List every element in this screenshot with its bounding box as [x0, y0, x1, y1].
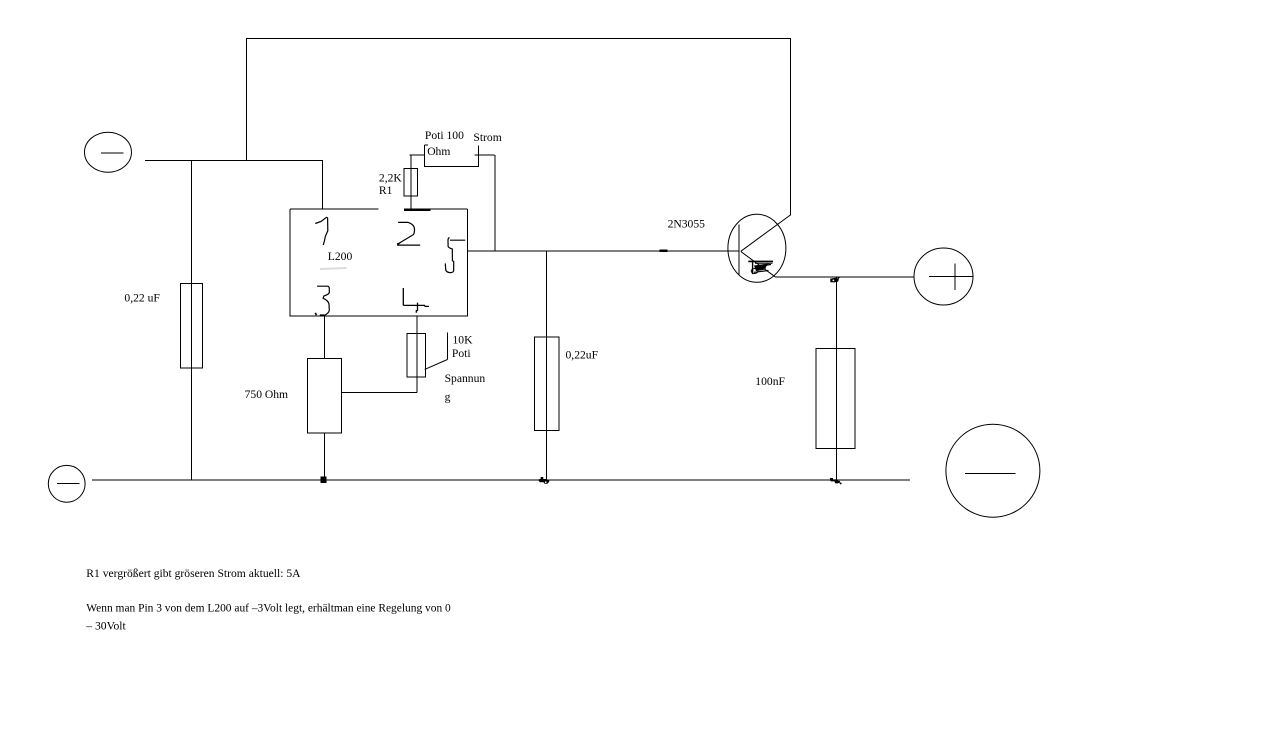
terminal input minus circle	[85, 132, 132, 172]
terminal ground minus circle	[48, 465, 85, 502]
capacitor C2 0,22uF body	[535, 337, 559, 430]
wire ground rail	[92, 479, 910, 481]
wire Strom drop	[494, 155, 496, 251]
wire capacitor C2 branch	[545, 251, 547, 480]
terminal output minus big circle	[946, 424, 1040, 517]
svg-text:Strom: Strom	[473, 131, 501, 144]
junction node pin3 ground	[321, 477, 327, 484]
terminal output plus bars	[929, 263, 973, 290]
svg-text:Spannun: Spannun	[445, 372, 486, 385]
svg-text:L200: L200	[328, 250, 353, 263]
potentiometer P2 wiper diagonal	[425, 360, 448, 370]
wire capacitor C3 branch	[835, 277, 837, 480]
wire pin4	[416, 316, 418, 393]
svg-text:0,22 uF: 0,22 uF	[124, 292, 160, 305]
terminal input minus bar	[101, 152, 124, 154]
pin 3 digit	[317, 286, 329, 315]
pin 3 ticks	[315, 313, 324, 315]
junction node C2 ground	[539, 477, 550, 484]
wire input horizontal	[145, 160, 323, 162]
terminal output plus circle	[914, 248, 973, 305]
svg-text:R1 vergrößert gibt gröseren St: R1 vergrößert gibt gröseren Strom aktuel…	[86, 567, 301, 580]
svg-text:Ohm: Ohm	[427, 145, 450, 158]
wire emitter to plus	[776, 276, 914, 278]
svg-text:2N3055: 2N3055	[668, 218, 706, 231]
junction node C3 ground	[830, 478, 842, 484]
wire pin3 upper	[324, 316, 326, 359]
svg-text:Poti: Poti	[452, 347, 471, 360]
potentiometer P2 10K body	[407, 334, 426, 378]
smudge under L200	[320, 268, 347, 269]
resistor R1 2,2K body	[404, 169, 418, 197]
transistor Q1 emitter diagonal	[741, 252, 776, 278]
wire capacitor C1 branch	[190, 161, 192, 480]
wire collector riser	[790, 38, 792, 216]
capacitor C3 100nF body	[816, 349, 855, 449]
pin 4 digit	[403, 288, 429, 313]
wire pin5 to base	[467, 250, 739, 252]
svg-text:2,2K: 2,2K	[379, 172, 402, 185]
svg-text:R1: R1	[379, 184, 393, 197]
transistor Q1 base bar	[738, 224, 740, 274]
svg-text:0,22uF: 0,22uF	[566, 349, 599, 362]
wire pin5 blip	[660, 249, 668, 252]
pin 2 digit blob	[397, 243, 401, 246]
junction squiggle on emitter wire	[830, 277, 840, 282]
svg-text:100nF: 100nF	[755, 375, 785, 388]
svg-text:750 Ohm: 750 Ohm	[245, 388, 288, 401]
potentiometer P1 100 Ohm loop	[410, 145, 495, 167]
svg-text:Wenn man Pin 3 von dem L200 au: Wenn man Pin 3 von dem L200 auf –3Volt l…	[86, 603, 451, 615]
svg-text:– 30Volt: – 30Volt	[85, 620, 126, 633]
transistor Q1 emitter arrow scribble	[748, 261, 773, 274]
terminal output minus big bar	[965, 472, 1016, 474]
wire pin1	[321, 161, 323, 209]
wire pin3 lower	[324, 433, 326, 480]
resistor R1 2,2K wire	[410, 155, 412, 210]
pin 1 digit	[315, 217, 328, 245]
pin 2 digit	[397, 222, 420, 245]
terminal ground minus bar	[57, 483, 79, 485]
IC U1 L200 box	[290, 209, 467, 316]
capacitor C1 0,22uF body	[180, 283, 202, 368]
transistor Q1 collector diagonal	[741, 215, 791, 251]
pin 5 digit	[445, 237, 465, 272]
svg-text:g: g	[445, 391, 451, 404]
svg-text:10K: 10K	[453, 334, 474, 347]
resistor 750 Ohm body	[307, 359, 341, 434]
wire top rail	[247, 38, 791, 40]
wire top rail left drop	[246, 38, 248, 161]
transistor Q1 2N3055 circle	[728, 214, 786, 282]
potentiometer P2 wiper post	[446, 332, 448, 359]
wire 750 to pin4	[341, 392, 417, 394]
svg-text:Poti 100: Poti 100	[425, 129, 464, 142]
